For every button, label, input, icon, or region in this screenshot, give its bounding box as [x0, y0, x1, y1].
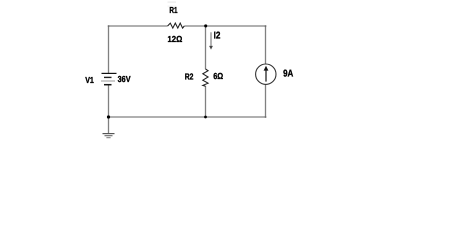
wire: bottom segment	[109, 116, 266, 118]
battery V1 plate 4 (short)	[104, 84, 112, 86]
svg-text:36V: 36V	[118, 74, 131, 84]
wire: top right segment	[184, 25, 265, 27]
resistor R2	[203, 69, 208, 86]
battery V1 plate 3 (long gray)	[101, 80, 115, 82]
faint cropped artifact bars above R1	[168, 1, 177, 3]
current probe I2 arrow shaft	[210, 32, 212, 46]
battery V1 plate 1 (long)	[102, 72, 117, 74]
corner darkening top-left	[108, 25, 110, 27]
svg-text:9A: 9A	[283, 69, 293, 80]
current source arrow shaft	[265, 70, 267, 82]
svg-text:V1: V1	[85, 75, 94, 85]
wire: right vertical upper	[265, 25, 267, 64]
wire: middle branch lower	[205, 86, 207, 117]
wire: top left segment	[109, 25, 168, 27]
resistor R1	[168, 23, 185, 28]
junction node at bottom of R2 branch	[204, 116, 207, 119]
junction node at bottom left	[107, 115, 110, 118]
wire: ground stub	[108, 117, 110, 134]
wire: middle branch upper	[205, 26, 207, 69]
junction node at top of R2 branch	[204, 24, 207, 27]
current source arrowhead	[264, 66, 269, 71]
current probe I2 arrowhead	[209, 46, 213, 50]
wire: left vertical lower	[108, 85, 110, 117]
svg-text:12Ω: 12Ω	[168, 34, 183, 44]
corner darkening bottom-right	[265, 116, 267, 118]
wire: left vertical upper	[108, 25, 110, 73]
current source circle	[256, 64, 276, 84]
ground symbol	[103, 134, 115, 138]
svg-text:6Ω: 6Ω	[213, 71, 223, 81]
svg-text:R2: R2	[185, 72, 194, 82]
svg-text:R1: R1	[169, 5, 177, 15]
battery V1 plate 2 (short)	[104, 76, 112, 78]
svg-text:I2: I2	[214, 31, 221, 42]
wire: right vertical lower	[265, 84, 267, 117]
corner darkening top-right	[265, 25, 267, 27]
